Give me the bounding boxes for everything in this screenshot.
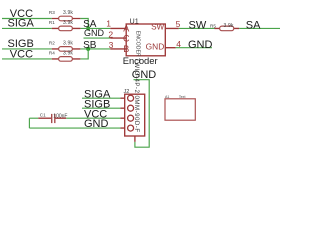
wire GND row to U1 pin2 — [84, 37, 111, 39]
svg-text:3: 3 — [109, 40, 114, 50]
resistor R5 — [210, 23, 239, 31]
resistor R2 — [49, 41, 81, 52]
wire SIGA row2 — [2, 27, 52, 29]
node junction SA — [86, 26, 90, 30]
wire cap branch left — [29, 117, 38, 119]
svg-text:100nF: 100nF — [53, 113, 67, 119]
svg-text:3.9k: 3.9k — [63, 20, 73, 26]
svg-text:Text: Text — [179, 95, 186, 99]
fiducial box — [165, 99, 195, 120]
svg-text:GND: GND — [84, 28, 105, 38]
wire SW row — [179, 27, 215, 29]
svg-text:R1: R1 — [49, 20, 55, 25]
capacitor C1 — [38, 113, 67, 124]
svg-text:2: 2 — [108, 29, 113, 39]
svg-text:SA: SA — [246, 19, 261, 31]
U1 right pin stubs — [165, 28, 179, 47]
svg-text:3.9k: 3.9k — [63, 10, 73, 16]
wire row1 to SA junction — [80, 19, 88, 29]
svg-text:GND: GND — [146, 42, 165, 52]
svg-text:SW: SW — [151, 23, 164, 32]
svg-text:3.9k: 3.9k — [63, 41, 73, 47]
svg-text:SIGA: SIGA — [8, 18, 35, 30]
svg-text:R3: R3 — [49, 10, 55, 15]
wire SW row after R5 to edge — [239, 27, 280, 29]
svg-text:SB: SB — [83, 40, 97, 51]
resistor R4 — [49, 51, 81, 62]
wire row4 up to SB junction — [80, 49, 88, 59]
wire GND row to J2 pin4 — [29, 127, 120, 129]
svg-text:SW: SW — [189, 19, 207, 31]
svg-text:B: B — [123, 44, 129, 54]
wire SIGA to J2 pin1 — [82, 97, 121, 99]
wire VCC row4 — [2, 58, 52, 60]
wire SA row to U1 pin1 — [80, 27, 110, 29]
svg-text:3.9k: 3.9k — [63, 51, 73, 57]
resistor R1 — [49, 20, 81, 31]
wire SIGB row3 — [2, 48, 52, 50]
wire SIGB to J2 pin2 — [82, 107, 121, 109]
wire VCC row1 — [2, 18, 52, 20]
J2 pin circle 4 — [128, 125, 134, 131]
svg-text:TWIG-4P-2.0MM-90D-F: TWIG-4P-2.0MM-90D-F — [133, 58, 140, 133]
resistor R3 — [49, 10, 81, 21]
svg-text:VCC: VCC — [10, 48, 33, 60]
svg-text:GND: GND — [188, 39, 213, 51]
svg-text:R2: R2 — [49, 41, 55, 46]
wire VCC to J2 pin3 — [66, 117, 120, 119]
encoder U1 body — [126, 24, 165, 56]
svg-text:A: A — [123, 24, 129, 34]
J2 pin circle 2 — [128, 105, 134, 111]
svg-text:ENCODER: ENCODER — [134, 31, 140, 57]
connector J2 body — [125, 94, 145, 136]
svg-text:3.9k: 3.9k — [224, 23, 234, 29]
svg-text:R5: R5 — [210, 24, 216, 29]
svg-text:C1: C1 — [40, 113, 46, 118]
node junction SB — [86, 47, 90, 51]
svg-text:1: 1 — [106, 19, 111, 29]
svg-text:R4: R4 — [49, 51, 55, 56]
svg-text:A1: A1 — [165, 95, 169, 99]
wire GND right row — [176, 47, 212, 49]
svg-text:C: C — [123, 33, 130, 43]
connector J2 pin lines — [121, 98, 128, 128]
U1 pin stubs left — [110, 28, 126, 49]
J2 bottom pin stub — [134, 136, 136, 142]
J2 pin circle 3 — [128, 115, 134, 121]
wire cap down to GND row — [28, 118, 30, 128]
svg-text:5: 5 — [176, 19, 181, 29]
svg-text:J2: J2 — [124, 89, 130, 95]
svg-text:U1: U1 — [130, 16, 139, 25]
wire SB row to U1 pin3 — [80, 48, 110, 50]
wire GND wrap around J2 — [134, 80, 150, 148]
J2 pin circle 1 — [128, 95, 134, 101]
